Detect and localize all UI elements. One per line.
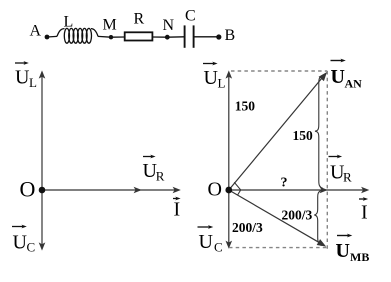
right UL axis (vertical) — [226, 70, 233, 248]
node M — [103, 17, 117, 40]
svg-text:I: I — [361, 202, 368, 224]
svg-text:U: U — [199, 231, 214, 253]
capacitor C — [185, 8, 196, 48]
left label UC — [12, 225, 35, 255]
svg-text:U: U — [336, 240, 350, 262]
left label UR — [143, 155, 165, 184]
svg-text:200/3: 200/3 — [232, 220, 263, 235]
svg-text:R: R — [343, 170, 352, 185]
svg-text:A: A — [30, 23, 42, 40]
svg-text:C: C — [185, 8, 196, 25]
svg-text:U: U — [204, 67, 219, 89]
node A — [30, 23, 50, 40]
right UR vector arrowhead — [320, 187, 328, 194]
svg-text:200/3: 200/3 — [282, 207, 313, 222]
svg-text:R: R — [156, 169, 165, 184]
svg-text:M: M — [103, 17, 117, 34]
label UAN — [331, 59, 363, 91]
brace 150 (along dashed vertical, upper) — [315, 75, 323, 188]
wire M to R — [111, 36, 125, 38]
label UMB — [336, 234, 370, 264]
right label I — [359, 197, 368, 223]
left UL axis (vertical) — [39, 70, 46, 250]
right label UR — [329, 155, 353, 185]
brace 200/3 (along dashed vertical, lower) — [314, 190, 321, 245]
dashed line top — [231, 70, 327, 72]
resistor R — [125, 11, 153, 41]
right label UC — [198, 225, 223, 254]
svg-text:MB: MB — [350, 250, 369, 264]
right I axis (horizontal) — [229, 187, 369, 194]
svg-text:C: C — [27, 240, 36, 255]
wire N to C — [167, 36, 184, 38]
svg-text:L: L — [218, 76, 226, 91]
left origin O — [20, 177, 46, 202]
svg-text:O: O — [20, 177, 36, 202]
left label I — [173, 197, 181, 221]
svg-text:L: L — [29, 75, 37, 90]
dashed line bottom — [229, 247, 327, 249]
vector UAN — [229, 72, 327, 190]
svg-text:U: U — [13, 232, 28, 254]
svg-text:I: I — [174, 199, 181, 221]
wire R to N — [152, 36, 167, 38]
svg-text:B: B — [225, 27, 236, 44]
svg-text:?: ? — [281, 175, 288, 190]
node B — [216, 27, 235, 44]
right label UL — [203, 62, 226, 91]
svg-text:150: 150 — [293, 128, 314, 143]
inductor L — [57, 14, 98, 44]
left label UL — [15, 61, 37, 90]
left UR vector arrowhead — [134, 187, 142, 194]
vector UMB — [229, 190, 326, 247]
wire C to B — [194, 36, 219, 38]
svg-text:O: O — [208, 179, 222, 201]
wire A to L — [47, 35, 57, 38]
svg-text:150: 150 — [235, 98, 256, 113]
svg-text:N: N — [163, 17, 175, 34]
svg-text:C: C — [214, 240, 223, 255]
dashed line right vertical — [326, 71, 328, 250]
node N — [163, 17, 175, 40]
svg-text:R: R — [134, 11, 145, 28]
left I axis (horizontal) — [42, 187, 181, 194]
svg-text:U: U — [15, 67, 30, 89]
right angle marker at O — [234, 182, 241, 195]
wire L to M — [98, 35, 111, 38]
svg-text:AN: AN — [345, 77, 363, 91]
right origin O — [208, 179, 233, 201]
svg-text:U: U — [331, 66, 345, 88]
